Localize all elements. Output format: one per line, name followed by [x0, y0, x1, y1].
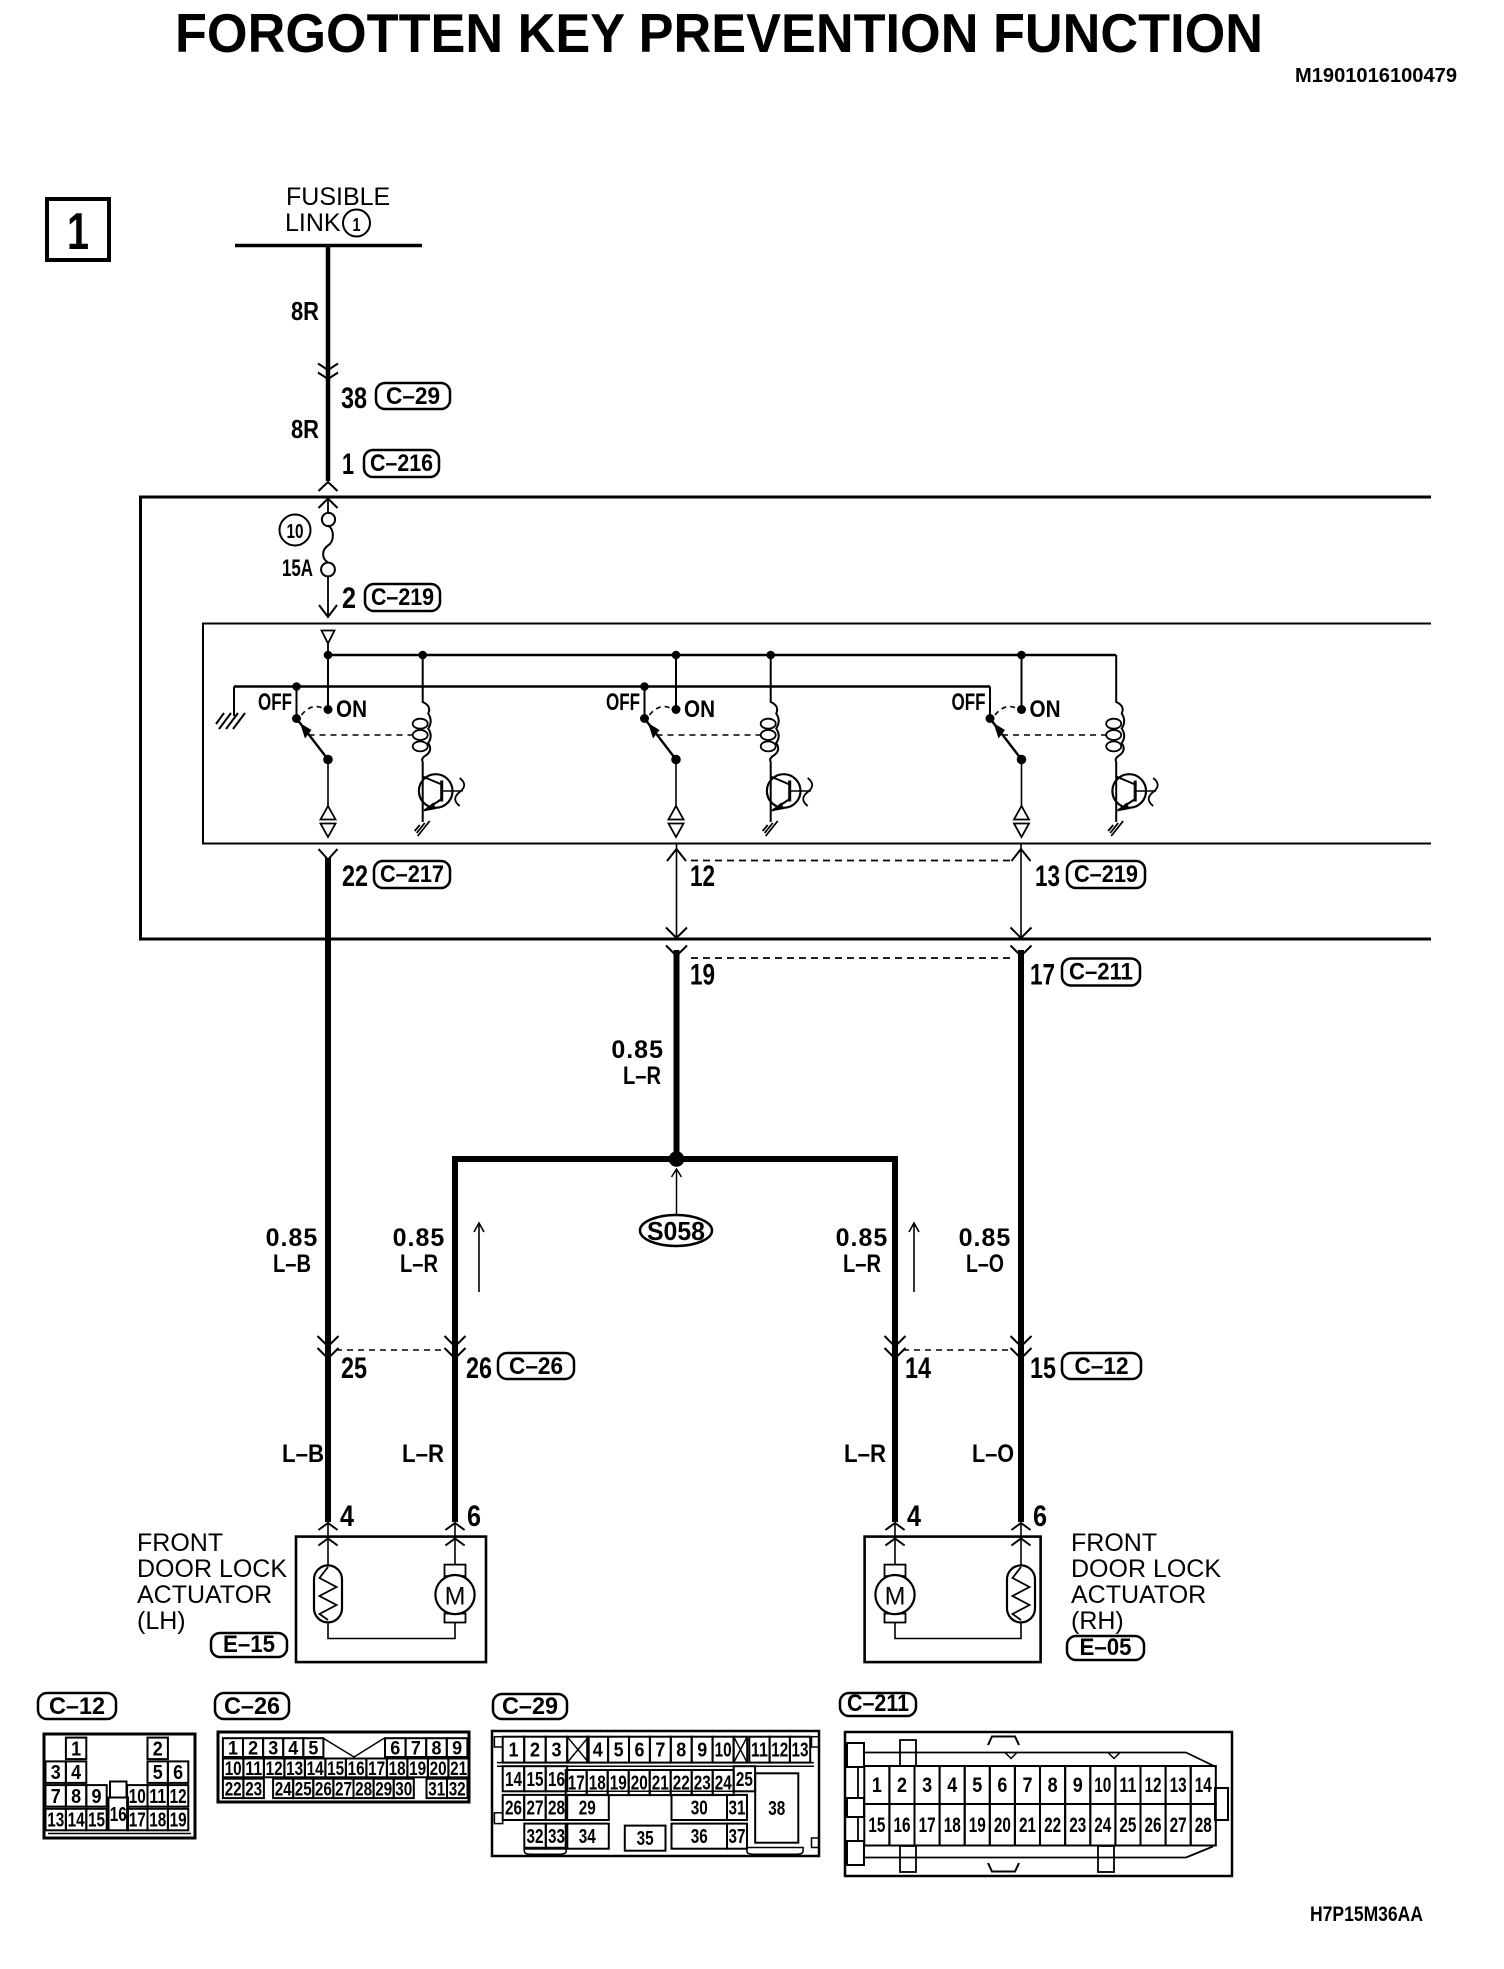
connector crossing pin 26: [445, 1336, 466, 1359]
wire colour label L-R: [402, 1440, 444, 1468]
svg-text:C–216: C–216: [370, 450, 433, 477]
wire colour label L-O: [972, 1440, 1014, 1468]
svg-text:(LH): (LH): [137, 1607, 186, 1635]
relay 3 coil: [1106, 655, 1124, 775]
figure marker 1: [47, 199, 109, 261]
svg-text:L–O: L–O: [966, 1250, 1004, 1278]
svg-text:13: 13: [286, 1759, 303, 1780]
svg-text:7: 7: [411, 1739, 421, 1760]
svg-text:32: 32: [527, 1826, 544, 1848]
relay 3 transistor: [1112, 774, 1156, 822]
relay 1 base squiggle: [455, 778, 464, 806]
connector arrow into ECU (C-216 pin 1): [319, 482, 338, 508]
svg-text:C–12: C–12: [1075, 1353, 1129, 1380]
svg-text:1: 1: [342, 448, 354, 481]
svg-text:M1901016100479: M1901016100479: [1295, 65, 1457, 87]
wire size label 0.85 L-B: [266, 1224, 319, 1278]
svg-text:C–219: C–219: [371, 584, 434, 611]
svg-text:2: 2: [530, 1740, 540, 1762]
relay 1 terminal triangles: [321, 806, 336, 837]
svg-text:C–12: C–12: [49, 1693, 105, 1720]
svg-text:10: 10: [287, 521, 304, 543]
relay 3 switch blade: [986, 714, 1027, 764]
svg-text:37: 37: [729, 1826, 746, 1848]
svg-text:22: 22: [225, 1779, 242, 1800]
svg-text:0.85: 0.85: [266, 1224, 319, 1252]
svg-text:4: 4: [288, 1739, 298, 1760]
LH lock motor: [435, 1523, 474, 1623]
svg-text:30: 30: [395, 1779, 412, 1800]
wire size label 0.85 L-R (left branch): [393, 1224, 446, 1278]
svg-text:4: 4: [593, 1740, 604, 1762]
RH actuator pin 6 label: [1033, 1500, 1047, 1533]
connector diagram C-12 body: [44, 1734, 195, 1838]
svg-text:26: 26: [505, 1798, 522, 1820]
document number M1901016100479: [1295, 65, 1457, 87]
wire size label 0.85 L-R (center): [611, 1036, 664, 1090]
svg-text:6: 6: [635, 1740, 645, 1762]
svg-text:C–29: C–29: [386, 383, 440, 410]
svg-text:20: 20: [430, 1759, 447, 1780]
fuse 10 (15A): [321, 513, 335, 576]
wire: fuse to relay box: [327, 577, 329, 617]
svg-text:8: 8: [676, 1740, 686, 1762]
svg-text:1: 1: [71, 1738, 81, 1760]
svg-text:38: 38: [768, 1798, 785, 1820]
svg-text:12: 12: [266, 1759, 283, 1780]
svg-text:ON: ON: [684, 696, 715, 723]
entry terminal triangle: [322, 631, 335, 644]
svg-text:27: 27: [527, 1798, 544, 1820]
svg-text:8: 8: [1048, 1774, 1058, 1797]
svg-text:9: 9: [697, 1740, 707, 1762]
svg-text:OFF: OFF: [258, 689, 292, 716]
svg-text:3: 3: [922, 1774, 932, 1797]
svg-text:4: 4: [71, 1762, 82, 1784]
svg-text:26: 26: [1145, 1814, 1162, 1837]
connector label E-15: [211, 1631, 287, 1658]
svg-text:32: 32: [449, 1779, 466, 1800]
svg-text:OFF: OFF: [952, 689, 986, 716]
connector label C-12: [1062, 1353, 1141, 1380]
svg-text:E–15: E–15: [223, 1631, 275, 1658]
svg-text:24: 24: [1094, 1814, 1111, 1837]
svg-text:4: 4: [340, 1500, 354, 1533]
svg-text:FRONT: FRONT: [1071, 1529, 1157, 1557]
svg-text:3: 3: [268, 1739, 278, 1760]
connector crossing at box edge (pin 17): [1011, 928, 1032, 957]
svg-text:15: 15: [1030, 1352, 1056, 1385]
LH actuator pin 4 connector arrows: [318, 1523, 337, 1546]
svg-text:1: 1: [509, 1740, 519, 1762]
relay 1 ON contact feed wire: [324, 651, 333, 714]
svg-text:7: 7: [51, 1786, 61, 1808]
svg-text:2: 2: [897, 1774, 907, 1797]
svg-text:0.85: 0.85: [836, 1224, 889, 1252]
wire size label 0.85 L-O: [959, 1224, 1012, 1278]
RH internal wire: [895, 1622, 1021, 1639]
svg-text:6: 6: [390, 1739, 400, 1760]
svg-text:8: 8: [71, 1786, 81, 1808]
relay 1 transistor ground: [415, 821, 430, 836]
svg-text:7: 7: [655, 1740, 665, 1762]
svg-text:E–05: E–05: [1080, 1634, 1132, 1661]
svg-text:10: 10: [225, 1759, 242, 1780]
svg-text:23: 23: [1069, 1814, 1086, 1837]
svg-text:14: 14: [505, 1769, 523, 1791]
LH actuator pin 4 label: [340, 1500, 354, 1533]
svg-text:19: 19: [170, 1810, 187, 1832]
svg-text:30: 30: [691, 1798, 708, 1820]
wire colour label L-B: [282, 1440, 324, 1468]
svg-text:18: 18: [149, 1810, 166, 1832]
connector diagram C-211 label: [840, 1690, 916, 1717]
svg-text:17: 17: [1030, 959, 1055, 992]
svg-text:13: 13: [1170, 1774, 1187, 1797]
svg-text:8R: 8R: [291, 414, 319, 444]
relay 2 terminal triangles: [669, 806, 684, 837]
direction arrow (right branch): [909, 1223, 919, 1292]
svg-text:5: 5: [153, 1762, 163, 1784]
RH key reminder switch: [1007, 1523, 1035, 1622]
svg-text:15: 15: [327, 1759, 344, 1780]
svg-text:28: 28: [355, 1779, 372, 1800]
relay 2 OFF contact feed wire: [640, 682, 649, 718]
svg-text:6: 6: [1033, 1500, 1047, 1533]
svg-text:0.85: 0.85: [611, 1036, 664, 1064]
svg-text:15: 15: [88, 1810, 105, 1832]
wire: pin 17 to RH actuator (0.85 L-O): [1018, 950, 1024, 1522]
svg-text:18: 18: [944, 1814, 961, 1837]
svg-text:0.85: 0.85: [393, 1224, 446, 1252]
wire size label 0.85 L-R (right branch): [836, 1224, 889, 1278]
LH key reminder switch: [314, 1523, 342, 1622]
svg-text:8R: 8R: [291, 296, 319, 326]
svg-text:25: 25: [341, 1352, 367, 1385]
svg-text:FRONT: FRONT: [137, 1529, 223, 1557]
pin 15 label: [1030, 1352, 1056, 1385]
connector label C-26: [498, 1353, 574, 1380]
svg-text:20: 20: [994, 1814, 1011, 1837]
svg-text:L–R: L–R: [402, 1440, 444, 1468]
LH internal wire: [328, 1622, 455, 1639]
RH actuator box: [865, 1537, 1041, 1663]
pin 13 arrow: [1012, 849, 1031, 861]
relay 2 switch throw dashed arc: [650, 707, 672, 715]
wire: pin 12 inside ECU: [676, 844, 678, 940]
front door lock actuator (LH) name: [137, 1529, 287, 1635]
svg-text:2: 2: [248, 1739, 258, 1760]
svg-text:29: 29: [579, 1798, 596, 1820]
svg-text:FUSIBLE: FUSIBLE: [286, 183, 390, 211]
svg-text:19: 19: [409, 1759, 426, 1780]
connector crossing at box edge (pin 19): [666, 928, 687, 957]
svg-text:5: 5: [972, 1774, 982, 1797]
connector label C-219 (lower): [1067, 861, 1145, 888]
svg-text:6: 6: [997, 1774, 1007, 1797]
svg-text:36: 36: [691, 1826, 708, 1848]
svg-text:M: M: [885, 1583, 906, 1611]
svg-text:15: 15: [868, 1814, 885, 1837]
svg-text:S058: S058: [647, 1216, 705, 1246]
svg-text:OFF: OFF: [606, 689, 640, 716]
svg-text:11: 11: [245, 1759, 262, 1780]
svg-text:9: 9: [452, 1739, 462, 1760]
svg-text:1: 1: [228, 1739, 238, 1760]
svg-text:17: 17: [919, 1814, 936, 1837]
svg-text:9: 9: [92, 1786, 102, 1808]
RH lock motor: [875, 1523, 914, 1623]
dashed connector tie 19-17: [691, 957, 1014, 959]
pin 17 label: [1030, 959, 1055, 992]
svg-text:C–217: C–217: [380, 861, 444, 888]
svg-text:38: 38: [341, 382, 367, 415]
svg-text:2: 2: [153, 1738, 163, 1760]
pin 12 label: [690, 860, 715, 893]
ETACS ECU outer box: [141, 497, 1432, 939]
svg-text:6: 6: [467, 1500, 481, 1533]
fusible link label: [285, 183, 390, 237]
direction arrow (left branch): [474, 1223, 484, 1292]
svg-text:13: 13: [47, 1810, 64, 1832]
svg-text:L–R: L–R: [400, 1250, 438, 1278]
svg-text:13: 13: [792, 1740, 809, 1762]
relay 3 transistor ground: [1108, 821, 1123, 836]
relay 3 switch output wire: [1021, 760, 1023, 808]
svg-text:L–R: L–R: [843, 1250, 881, 1278]
title: FORGOTTEN KEY PREVENTION FUNCTION: [175, 2, 1263, 64]
svg-text:13: 13: [1035, 860, 1060, 893]
connector label C-219: [365, 584, 440, 611]
dashed connector tie 12-13: [691, 860, 1014, 862]
svg-text:12: 12: [771, 1740, 788, 1762]
pin 22 label: [342, 860, 368, 893]
drawing code H7P15M36AA: [1310, 1903, 1423, 1926]
svg-text:11: 11: [1119, 1774, 1136, 1797]
pin 22 exit arrow: [319, 849, 338, 860]
svg-text:1: 1: [67, 203, 89, 261]
svg-text:25: 25: [736, 1769, 753, 1791]
svg-text:19: 19: [690, 959, 715, 992]
relay 2 transistor: [767, 774, 811, 822]
wire colour label L-R (right): [844, 1440, 886, 1468]
relay 1 mechanical link (dashed): [309, 734, 413, 736]
connector label E-05: [1067, 1634, 1144, 1661]
svg-text:31: 31: [428, 1779, 445, 1800]
svg-text:16: 16: [348, 1759, 365, 1780]
ground bus line (lower): [234, 685, 990, 688]
svg-text:18: 18: [389, 1759, 406, 1780]
power bus line (upper): [328, 654, 1116, 657]
svg-text:0.85: 0.85: [959, 1224, 1012, 1252]
pin 13 label: [1035, 860, 1060, 893]
relay 2 base squiggle: [803, 778, 812, 806]
svg-text:14: 14: [68, 1810, 86, 1832]
in-line connector crossing C-29 (double chevron): [318, 364, 338, 380]
svg-text:12: 12: [690, 860, 715, 893]
connector label C-217: [374, 861, 450, 888]
svg-text:H7P15M36AA: H7P15M36AA: [1310, 1903, 1423, 1926]
svg-text:1: 1: [353, 215, 361, 235]
svg-text:14: 14: [307, 1759, 324, 1780]
svg-text:12: 12: [1145, 1774, 1162, 1797]
wire label 8R: [291, 296, 319, 326]
svg-text:5: 5: [614, 1740, 624, 1762]
pin 1 label: [342, 448, 354, 481]
fuse rating 15A: [282, 555, 313, 582]
svg-text:ACTUATOR: ACTUATOR: [137, 1581, 272, 1609]
svg-text:35: 35: [637, 1828, 654, 1850]
svg-text:15A: 15A: [282, 555, 313, 582]
svg-text:C–26: C–26: [224, 1693, 280, 1720]
svg-text:24: 24: [275, 1779, 292, 1800]
svg-text:10: 10: [715, 1740, 732, 1762]
svg-text:28: 28: [548, 1798, 565, 1820]
svg-text:11: 11: [751, 1740, 768, 1762]
RH actuator pin 6 connector arrows: [1011, 1523, 1030, 1546]
svg-text:25: 25: [1119, 1814, 1136, 1837]
connector label C-29: [376, 383, 450, 410]
connector diagram C-26 label: [215, 1693, 289, 1720]
relay 1 coil: [413, 651, 431, 775]
svg-text:8: 8: [432, 1739, 442, 1760]
relay 2 switch blade: [640, 714, 681, 764]
svg-text:C–219: C–219: [1074, 861, 1138, 888]
wire: box top to fuse: [327, 499, 329, 515]
svg-text:9: 9: [1073, 1774, 1083, 1797]
relay 3 mechanical link (dashed): [1002, 734, 1106, 736]
RH actuator pin 4 label: [907, 1500, 921, 1533]
svg-text:L–B: L–B: [273, 1250, 311, 1278]
LH actuator pin 6 label: [467, 1500, 481, 1533]
svg-text:26: 26: [315, 1779, 332, 1800]
svg-text:4: 4: [947, 1774, 957, 1797]
relay 1 OFF contact feed wire: [292, 682, 301, 718]
front door lock actuator (RH) name: [1071, 1529, 1221, 1635]
pin 12 arrow: [667, 849, 686, 861]
svg-text:4: 4: [907, 1500, 921, 1533]
svg-text:LINK: LINK: [285, 209, 341, 237]
relay 2 ON contact feed wire: [672, 651, 681, 714]
svg-text:(RH): (RH): [1071, 1607, 1124, 1635]
relay 3 ON contact feed wire: [1017, 651, 1026, 714]
connector crossing pin 14: [885, 1336, 906, 1359]
svg-text:22: 22: [342, 860, 368, 893]
connector label C-216: [364, 450, 439, 477]
connector diagram C-12 label: [38, 1693, 116, 1720]
svg-text:10: 10: [129, 1786, 146, 1808]
svg-text:3: 3: [552, 1740, 562, 1762]
svg-text:12: 12: [170, 1786, 187, 1808]
wire: fusible link to C-29 pin 38 (8R): [326, 246, 331, 481]
svg-text:14: 14: [1195, 1774, 1212, 1797]
relay 1 switch throw dashed arc: [302, 707, 324, 715]
pin 14 label: [905, 1352, 931, 1385]
svg-text:ACTUATOR: ACTUATOR: [1071, 1581, 1206, 1609]
relay block inner box: [203, 624, 1431, 844]
pin 38 label: [341, 382, 367, 415]
svg-text:17: 17: [368, 1759, 385, 1780]
svg-text:16: 16: [548, 1769, 565, 1791]
svg-text:L–O: L–O: [972, 1440, 1014, 1468]
svg-text:DOOR LOCK: DOOR LOCK: [1071, 1555, 1221, 1583]
fusible link bus bar: [235, 244, 422, 248]
wire: pin 19 to joint S058 (0.85 L-R): [674, 950, 680, 1162]
svg-text:11: 11: [149, 1786, 166, 1808]
RH actuator pin 4 connector arrows: [885, 1523, 904, 1546]
connector diagram C-26 body: [218, 1732, 469, 1802]
svg-text:22: 22: [1044, 1814, 1061, 1837]
svg-text:C–211: C–211: [847, 1690, 909, 1717]
dashed connector tie 25-26: [336, 1349, 447, 1351]
svg-text:ON: ON: [1030, 696, 1061, 723]
joint S058 node dot: [669, 1151, 685, 1167]
svg-text:25: 25: [295, 1779, 312, 1800]
pin 19 label: [690, 959, 715, 992]
ground bus elbow and chassis ground: [216, 687, 245, 730]
connector crossing pin 15: [1011, 1336, 1032, 1359]
relay 2 mechanical link (dashed): [657, 734, 761, 736]
svg-text:FORGOTTEN KEY PREVENTION FUNCT: FORGOTTEN KEY PREVENTION FUNCTION: [175, 2, 1263, 64]
svg-text:17: 17: [129, 1810, 146, 1832]
wire: triangle to bus: [327, 643, 329, 655]
wire: pin 13 inside ECU: [1020, 844, 1022, 940]
svg-text:21: 21: [1019, 1814, 1036, 1837]
svg-text:DOOR LOCK: DOOR LOCK: [137, 1555, 287, 1583]
svg-text:31: 31: [729, 1798, 746, 1820]
joint S058 callout: [640, 1169, 712, 1246]
svg-text:3: 3: [51, 1762, 61, 1784]
svg-text:L–R: L–R: [844, 1440, 886, 1468]
wire: pin 22 to LH actuator (L-B): [325, 858, 331, 1522]
relay 3 switch throw dashed arc: [995, 707, 1017, 715]
connector diagram C-29 label: [493, 1693, 567, 1720]
svg-text:M: M: [445, 1583, 466, 1611]
connector diagram C-29 body: [492, 1731, 819, 1856]
LH actuator box: [296, 1537, 486, 1663]
svg-text:15: 15: [527, 1769, 544, 1791]
connector diagram C-211 body: [845, 1732, 1232, 1876]
svg-text:L–R: L–R: [623, 1062, 661, 1090]
relay 1 switch output wire: [327, 760, 329, 808]
svg-text:16: 16: [894, 1814, 911, 1837]
relay 1 transistor: [419, 774, 463, 822]
relay 2 transistor ground: [763, 821, 778, 836]
relay 2 coil: [761, 651, 779, 775]
svg-text:16: 16: [110, 1804, 127, 1826]
svg-text:23: 23: [245, 1779, 262, 1800]
connector crossing pin 25: [318, 1336, 339, 1359]
svg-text:6: 6: [173, 1762, 183, 1784]
relay 1 switch blade: [292, 714, 333, 764]
svg-text:1: 1: [872, 1774, 882, 1797]
svg-text:26: 26: [466, 1352, 492, 1385]
relay 3 base squiggle: [1149, 778, 1158, 806]
svg-text:C–211: C–211: [1069, 959, 1133, 986]
svg-text:C–29: C–29: [502, 1693, 558, 1720]
dashed connector tie 14-15: [903, 1349, 1013, 1351]
svg-text:14: 14: [905, 1352, 931, 1385]
svg-text:33: 33: [548, 1826, 565, 1848]
svg-text:2: 2: [342, 582, 356, 615]
connector label C-211: [1062, 959, 1140, 986]
relay 3 OFF contact feed wire: [989, 687, 991, 719]
fuse number circle 10: [280, 515, 311, 546]
svg-text:L–B: L–B: [282, 1440, 324, 1468]
relay 2 switch output wire: [675, 760, 677, 808]
pin 26 label: [466, 1352, 492, 1385]
pin 2 label: [342, 582, 356, 615]
